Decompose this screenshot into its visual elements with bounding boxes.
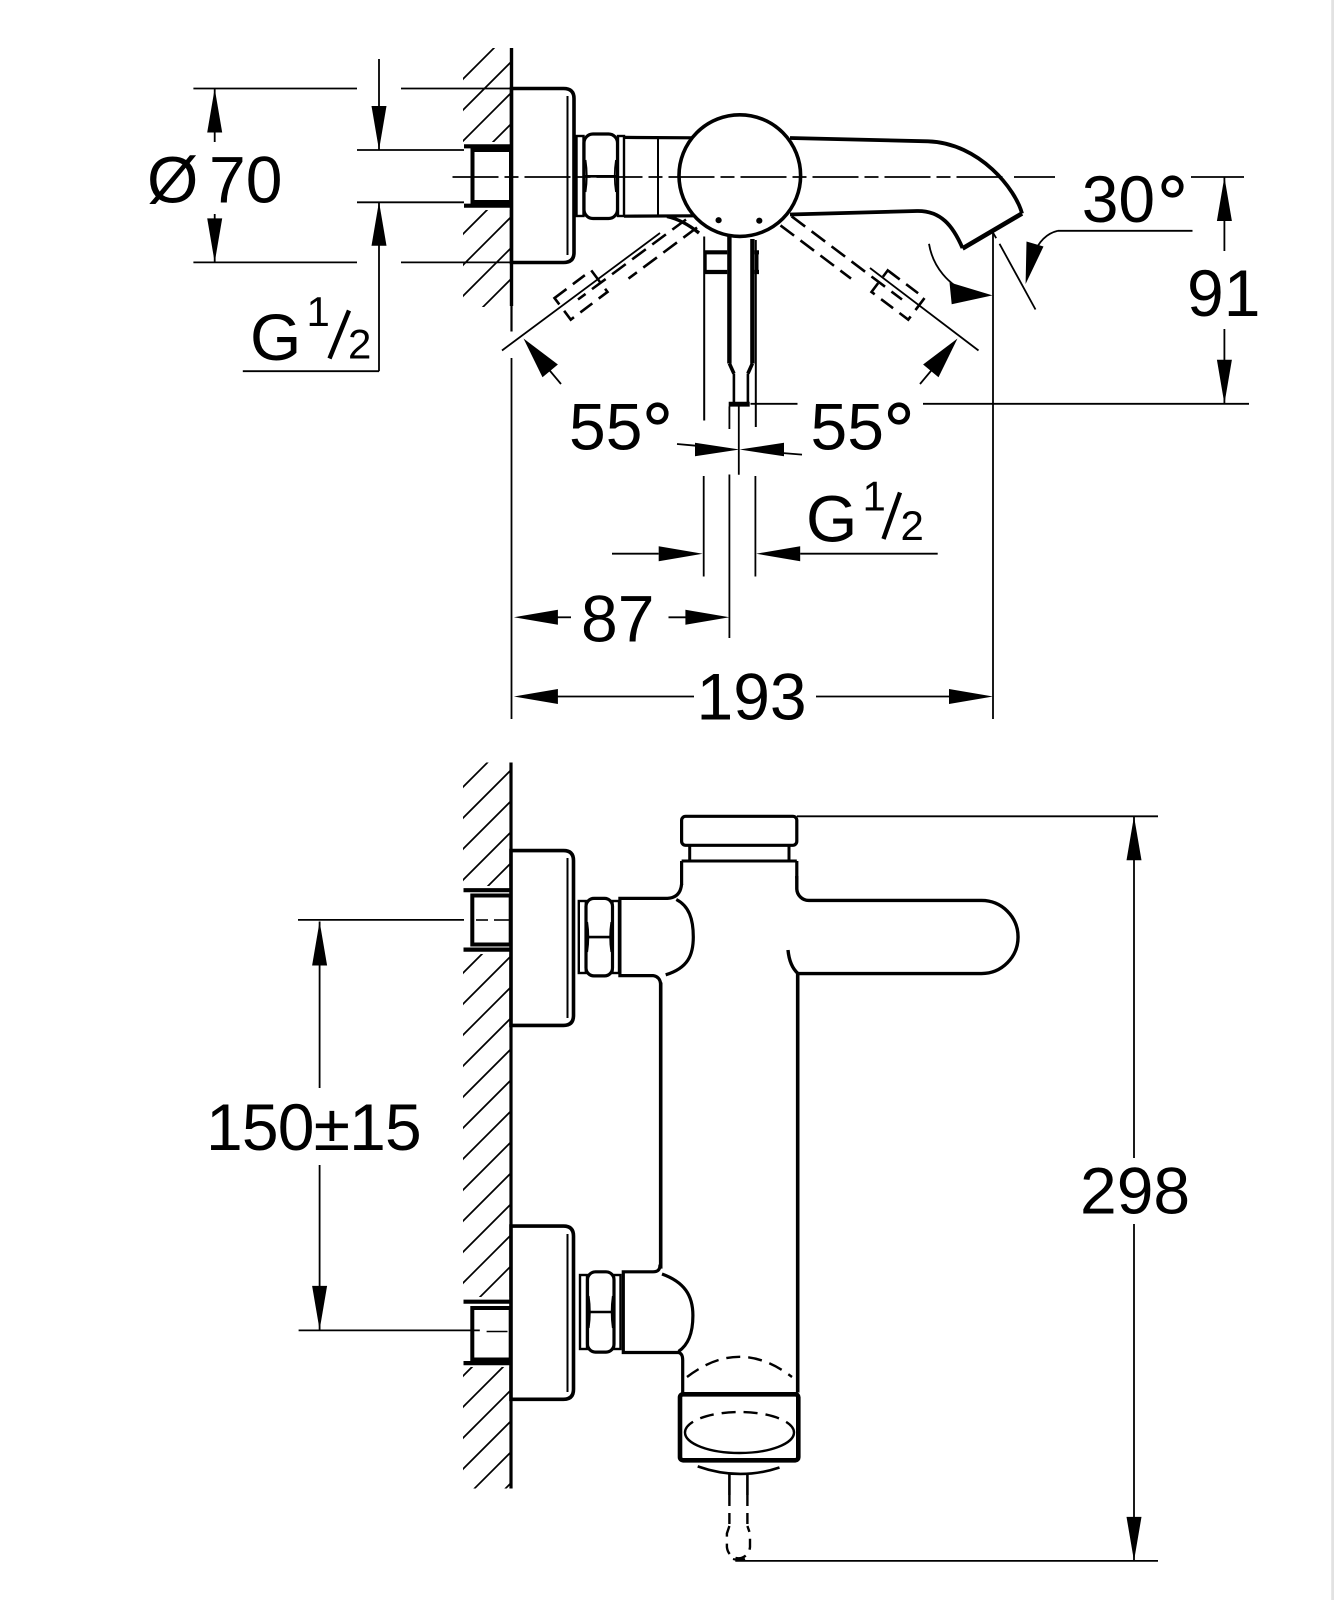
diverter pull knob xyxy=(727,1526,750,1558)
union hex nut (top view) xyxy=(584,134,618,219)
upper pipe centerline dashes xyxy=(476,919,488,921)
body-to-lever transition arc left xyxy=(667,217,699,234)
svg-text:70: 70 xyxy=(209,143,282,217)
svg-text:87: 87 xyxy=(581,581,654,655)
dimension 150±15 extension lines xyxy=(298,919,464,921)
dimension 87 xyxy=(514,610,558,625)
upper horn outline xyxy=(620,884,682,984)
dimension 298 vertical with arrows xyxy=(1133,816,1135,1158)
body joint line xyxy=(657,138,659,216)
pipe zone white-outs (bottom) xyxy=(458,886,510,954)
30-degree arc arrow xyxy=(929,244,970,294)
wall face line (bottom view) xyxy=(509,763,512,1489)
dimension 91 line and arrows xyxy=(1223,177,1225,251)
upper inlet pipe bold lines xyxy=(464,888,512,892)
square pipe end (top view) xyxy=(473,150,512,202)
svg-text:193: 193 xyxy=(697,659,807,733)
svg-text:1: 1 xyxy=(307,288,330,335)
spout top edge xyxy=(790,138,1022,214)
body ring below cap xyxy=(688,845,691,861)
lower escutcheon (bottom view) xyxy=(511,1226,574,1399)
dashed lever position right xyxy=(781,216,903,299)
svg-text:55: 55 xyxy=(811,389,884,463)
diverter hidden dome top (dashed) xyxy=(685,1412,794,1433)
dimension 87 extension line xyxy=(728,475,730,639)
dashed lever grip band left xyxy=(555,270,608,319)
55-degree leader arrow left xyxy=(548,369,561,385)
upper union nut washers xyxy=(579,901,586,973)
lever tip bar xyxy=(729,402,750,407)
lever shaft (top view) xyxy=(727,236,754,373)
svg-text:G: G xyxy=(806,482,857,556)
hidden passage dashed arc above diverter xyxy=(687,1357,792,1377)
svg-text:55: 55 xyxy=(569,389,642,463)
upper escutcheon (bottom view) xyxy=(511,851,574,1026)
handle (bottom view) white fill xyxy=(798,900,1018,973)
pipe zone white-out (top) xyxy=(458,142,510,210)
dimension 91 extension bottom xyxy=(923,403,1249,405)
left washer of union nut (top view) xyxy=(577,136,584,216)
lever centerline extension xyxy=(738,406,740,475)
svg-text:2: 2 xyxy=(901,502,924,549)
G1/2 wall dimension vertical xyxy=(378,59,380,150)
dimension 150±15 vertical with arrows xyxy=(319,922,321,1089)
upper body edges xyxy=(680,861,683,885)
30-degree label leader xyxy=(1058,230,1193,232)
spout bottom edge xyxy=(790,211,963,248)
diverter dome bottom (solid) xyxy=(685,1433,794,1453)
upper horn (inlet boss) white fill xyxy=(620,898,693,975)
diverter housing box xyxy=(680,1394,798,1460)
wall hatching (bottom view) xyxy=(455,730,520,1539)
diverter pull knob stem xyxy=(728,1474,731,1496)
dimension 193 xyxy=(514,689,558,704)
dashed lever grip band right xyxy=(872,270,925,319)
lower pipe centerline dashes xyxy=(487,1331,508,1333)
screw dot left xyxy=(716,217,722,223)
upper horn dome xyxy=(666,900,694,975)
screw dot right xyxy=(756,218,762,224)
dimension 298 extension lines xyxy=(797,815,1158,817)
escutcheon inner edge line xyxy=(567,96,569,255)
lower union hex nut xyxy=(588,1272,615,1352)
escutcheon (top view) xyxy=(512,89,575,263)
body cap (bottom view) xyxy=(682,816,797,845)
svg-text:G: G xyxy=(250,300,301,374)
wall hatching (top view) xyxy=(455,22,520,366)
dashed lever position left xyxy=(578,220,697,300)
svg-text:2: 2 xyxy=(348,321,371,368)
lower horn dome xyxy=(662,1274,693,1352)
right washer of union nut (top view) xyxy=(618,136,624,216)
upper union hex nut xyxy=(586,898,613,976)
55-degree reference line left xyxy=(502,233,660,351)
page right edge border artifact xyxy=(1331,0,1334,1600)
lower square pipe end xyxy=(472,1308,510,1360)
body tube edges xyxy=(659,983,663,1269)
handle outline xyxy=(788,876,1018,974)
svg-text:Ø: Ø xyxy=(147,143,198,217)
dimension 91 extension top xyxy=(1191,176,1244,178)
55-degree vertex X arrows xyxy=(677,444,697,446)
svg-text:91: 91 xyxy=(1187,256,1260,330)
lower inlet pipe bold lines xyxy=(464,1300,512,1304)
svg-text:298: 298 xyxy=(1080,1154,1190,1228)
G1/2 handle extension lines xyxy=(703,476,705,577)
inlet pipe bold lines (top view) xyxy=(464,144,512,148)
faucet body cone edges (top view) xyxy=(624,136,694,140)
lower horn (shower outlet boss) white fill xyxy=(623,1272,693,1353)
55-degree leader arrow right xyxy=(920,369,933,385)
30-degree outlet axis line xyxy=(993,232,997,238)
lever outer profile lines (top view) xyxy=(703,237,705,421)
G1/2 mid dimension arrows xyxy=(612,553,659,555)
lower union nut washers xyxy=(580,1275,587,1349)
spout outlet cut edge xyxy=(963,214,1023,249)
lever collar band (top view) xyxy=(704,250,760,254)
svg-text:30: 30 xyxy=(1082,162,1155,236)
wall face line (top view) xyxy=(510,48,513,306)
faucet ball body circle (top view) xyxy=(679,115,801,237)
svg-text:1: 1 xyxy=(863,473,886,520)
upper square pipe end xyxy=(472,896,510,945)
dimension d70 vertical with arrows xyxy=(214,89,216,143)
lower horn outline xyxy=(623,1265,682,1394)
dimension lines diameter 70 xyxy=(193,88,357,90)
spout tip vertical extension line xyxy=(992,234,994,720)
svg-text:150±15: 150±15 xyxy=(206,1090,421,1164)
dome below diverter box xyxy=(698,1466,780,1474)
centerline (top view) xyxy=(453,176,1009,178)
55-degree reference line right xyxy=(870,268,979,351)
